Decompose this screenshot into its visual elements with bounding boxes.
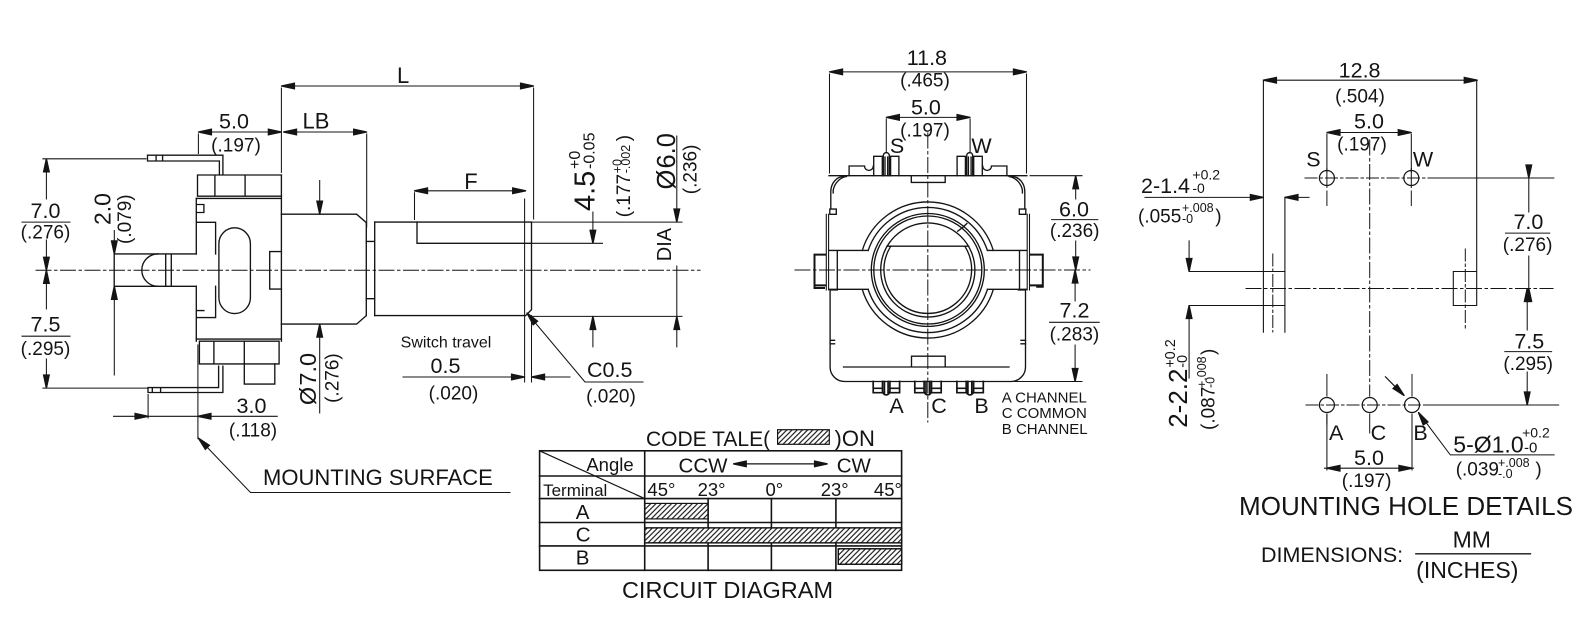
- svg-text:5.0: 5.0: [1354, 110, 1384, 134]
- svg-text:7.2: 7.2: [1060, 298, 1090, 322]
- svg-text:C: C: [1371, 421, 1387, 445]
- A-C-B holes axis line: [1306, 404, 1425, 406]
- svg-text:5-Ø1.0: 5-Ø1.0: [1453, 431, 1523, 457]
- svg-text:(.020): (.020): [586, 387, 636, 408]
- svg-text:MM: MM: [1453, 527, 1491, 553]
- switch travel pre-position line: [524, 199, 526, 382]
- svg-text:W: W: [971, 134, 992, 158]
- code table frame: [540, 451, 902, 571]
- center tab notch below top edge: [911, 176, 945, 183]
- svg-text:6.0: 6.0: [1059, 197, 1089, 221]
- CCW-CW double arrow: [746, 463, 814, 465]
- dimension 12.8: [1263, 79, 1477, 81]
- svg-text:(.087: (.087: [1198, 387, 1219, 430]
- centerline horizontal (side view axis): [36, 269, 700, 271]
- leader arrow into hole B: [1385, 377, 1399, 391]
- svg-text:(.197): (.197): [1342, 471, 1392, 492]
- lower cover side notches: [830, 340, 1025, 344]
- svg-text:B: B: [974, 394, 988, 418]
- svg-text:C: C: [931, 394, 947, 418]
- shaft neck step: [366, 222, 374, 316]
- top-right corner curl: [1009, 177, 1026, 215]
- bezel circle inner: [874, 216, 982, 324]
- svg-text:(.039: (.039: [1456, 459, 1499, 480]
- mounting surface leader and label: [198, 438, 510, 493]
- svg-text:C0.5: C0.5: [587, 358, 632, 382]
- centerline vertical (front view): [927, 133, 929, 422]
- dimension dia 7.0 bushing: [319, 181, 321, 414]
- dimension 7.2: [1010, 270, 1082, 382]
- svg-text:11.8: 11.8: [907, 46, 947, 70]
- hole W: [1404, 171, 1419, 186]
- dimension 6.0: [1030, 176, 1082, 270]
- W terminal tab: [957, 153, 982, 176]
- dimension 0.5 travel: [403, 376, 570, 378]
- svg-text:Ø: Ø: [295, 387, 321, 405]
- body right edge: [280, 175, 282, 341]
- body left edge and notches: [196, 198, 215, 341]
- shaft D-flat line: [417, 222, 532, 243]
- dimension 5.0 S-W: [1327, 133, 1411, 173]
- svg-text:(.197): (.197): [211, 135, 261, 156]
- dimension 5.0 body width: [198, 132, 281, 154]
- svg-text:-0: -0: [1203, 377, 1217, 388]
- hatch bar terminal C: [645, 528, 902, 543]
- svg-text:0.5: 0.5: [431, 354, 461, 378]
- body top edge: [829, 175, 1027, 177]
- svg-text:S: S: [1306, 148, 1320, 172]
- left shoulder and notch: [849, 166, 873, 176]
- svg-text:-.0: -.0: [1498, 467, 1513, 481]
- stub clip lines left: [830, 250, 869, 289]
- leader from hole B to note: [1419, 413, 1555, 455]
- second ring arcs: [868, 207, 987, 332]
- stub clip lines right: [987, 250, 1026, 289]
- svg-text:-0.05: -0.05: [581, 132, 598, 169]
- centerline horizontal (front view): [795, 269, 1090, 271]
- dimension 2-1.4 slots: [1145, 196, 1309, 198]
- svg-text:(.465): (.465): [900, 71, 950, 92]
- svg-text:-0: -0: [1182, 212, 1193, 226]
- left slot centerline: [1272, 254, 1274, 332]
- dimension dia 6.0 shaft: [532, 136, 683, 347]
- bottom bent mounting leg: [148, 366, 223, 392]
- svg-text:B: B: [1413, 421, 1427, 445]
- svg-text:MOUNTING HOLE DETAILS: MOUNTING HOLE DETAILS: [1239, 491, 1573, 521]
- shaft outline: [375, 222, 532, 316]
- svg-text:4.5: 4.5: [569, 171, 601, 211]
- terminal pin A: [873, 382, 899, 395]
- svg-text:(.295): (.295): [21, 339, 71, 360]
- svg-text:A: A: [576, 501, 590, 524]
- shaft D-hole circle: [884, 246, 972, 313]
- mounting hole details view: [1189, 80, 1559, 433]
- svg-text:A CHANNEL: A CHANNEL: [1002, 389, 1087, 406]
- svg-text:(.177: (.177: [614, 174, 635, 217]
- svg-text:7.5: 7.5: [1514, 330, 1544, 354]
- top bent mounting leg: [148, 155, 223, 174]
- dimension F: [415, 191, 526, 220]
- front view of rotary encoder: [795, 133, 1090, 422]
- upper body side edges: [826, 214, 1029, 290]
- svg-text:C COMMON: C COMMON: [1002, 405, 1087, 422]
- lower cover inner bottom line: [844, 356, 1010, 367]
- svg-text:Switch travel: Switch travel: [401, 335, 492, 352]
- dimension LB: [284, 132, 367, 227]
- dimension 7.5 left: [43, 270, 147, 388]
- dimension 3.0 leg offset: [114, 395, 278, 419]
- svg-text:-.002: -.002: [619, 145, 633, 174]
- terminal pin B: [957, 382, 983, 395]
- svg-text:+0.2: +0.2: [1522, 424, 1550, 440]
- hole S: [1319, 171, 1334, 186]
- svg-text:(.236): (.236): [1050, 221, 1100, 242]
- dimension 4.5 flat: [532, 212, 603, 347]
- threaded bushing with chamfers: [281, 214, 366, 324]
- hatch bar terminal B: [838, 549, 901, 565]
- svg-text:CCW: CCW: [679, 454, 729, 477]
- svg-text:(.276): (.276): [1503, 235, 1553, 256]
- svg-text:23°: 23°: [821, 479, 849, 500]
- hole C: [1362, 398, 1377, 413]
- dimension 2.0 plunger: [113, 231, 115, 376]
- svg-text:7.0: 7.0: [295, 353, 321, 386]
- hatch legend sample: [778, 430, 830, 445]
- hole B: [1405, 398, 1420, 413]
- dimension 11.8: [830, 72, 1027, 173]
- svg-text:Angle: Angle: [586, 454, 633, 475]
- hole A: [1319, 398, 1334, 413]
- svg-text:Terminal: Terminal: [543, 481, 607, 500]
- svg-text:2.0: 2.0: [89, 193, 115, 225]
- mounting surface extension line: [197, 345, 199, 439]
- shaft D-hole flat chord: [887, 245, 969, 247]
- S-W holes axis line: [1305, 177, 1437, 179]
- table header diagonal: [540, 451, 645, 499]
- svg-text:): ): [614, 135, 635, 141]
- svg-text:-0: -0: [1175, 355, 1191, 368]
- svg-text:7.0: 7.0: [1513, 210, 1543, 234]
- outer ring arcs: [862, 202, 993, 338]
- svg-text:(.197): (.197): [1337, 135, 1387, 156]
- svg-text:(.295): (.295): [1503, 354, 1553, 375]
- svg-text:A: A: [1329, 421, 1344, 445]
- right slot: [1453, 80, 1476, 305]
- bottom box: [196, 339, 281, 364]
- svg-text:7.5: 7.5: [31, 313, 61, 337]
- svg-text:LB: LB: [303, 109, 330, 134]
- svg-text:6.0: 6.0: [653, 133, 681, 168]
- svg-text:45°: 45°: [647, 479, 675, 500]
- svg-text:45°: 45°: [874, 479, 902, 500]
- switch plunger: [114, 254, 196, 286]
- svg-text:-0: -0: [1524, 439, 1537, 456]
- svg-text:B: B: [576, 546, 590, 569]
- svg-text:2-2.2: 2-2.2: [1163, 369, 1193, 428]
- svg-text:W: W: [1413, 148, 1434, 172]
- svg-text:C: C: [576, 524, 591, 547]
- svg-text:(.197): (.197): [900, 121, 950, 142]
- dimension 7.0 left: [43, 159, 146, 270]
- bezel circle outer: [871, 214, 984, 327]
- svg-text:3.0: 3.0: [237, 394, 267, 418]
- svg-text:L: L: [397, 63, 409, 88]
- S terminal tab: [874, 153, 899, 176]
- svg-text:5.0: 5.0: [1354, 446, 1384, 470]
- svg-text:(.079): (.079): [115, 194, 136, 244]
- svg-text:(.276): (.276): [21, 223, 71, 244]
- svg-text:-0: -0: [1192, 180, 1205, 196]
- svg-text:DIMENSIONS:: DIMENSIONS:: [1261, 543, 1403, 567]
- svg-text:(.276): (.276): [323, 353, 344, 403]
- svg-text:(.236): (.236): [681, 145, 702, 195]
- svg-text:(.020): (.020): [429, 384, 479, 405]
- right side stub: [1030, 255, 1043, 287]
- svg-text:A: A: [889, 394, 904, 418]
- svg-text:23°: 23°: [698, 479, 726, 500]
- dimension L: [281, 86, 533, 219]
- svg-text:DIA: DIA: [654, 227, 676, 261]
- dimension 2-2.2: [1188, 241, 1190, 378]
- svg-text:(.283): (.283): [1050, 324, 1100, 345]
- svg-text:CW: CW: [837, 454, 872, 477]
- top cover box: [196, 175, 281, 198]
- svg-text:Ø: Ø: [653, 170, 681, 190]
- left slot verticals: [1263, 80, 1285, 332]
- svg-text:5.0: 5.0: [911, 95, 941, 119]
- terminal pin C: [915, 382, 941, 395]
- svg-text:0°: 0°: [765, 479, 783, 500]
- svg-text:CIRCUIT DIAGRAM: CIRCUIT DIAGRAM: [622, 577, 833, 603]
- detent plate rect at body right: [270, 252, 282, 290]
- right shoulder and notch: [983, 166, 1007, 176]
- svg-text:): ): [1215, 207, 1221, 228]
- hatch bar terminal A: [645, 503, 708, 519]
- left side view of rotary encoder: [36, 155, 700, 392]
- left slot horizontals (2-2.2 extensions): [1189, 272, 1285, 306]
- view horizontal centerline: [1246, 288, 1553, 290]
- right slot centerline: [1464, 249, 1466, 328]
- svg-text:MOUNTING SURFACE: MOUNTING SURFACE: [263, 465, 493, 490]
- svg-text:12.8: 12.8: [1339, 59, 1381, 83]
- internal oval slot: [219, 228, 251, 314]
- dimension 5.0 tabs: [886, 117, 970, 153]
- svg-text:(INCHES): (INCHES): [1416, 557, 1518, 583]
- svg-text:(.118): (.118): [229, 421, 277, 442]
- dimension 7.0 right: [1528, 178, 1530, 289]
- small mold mark arc: [958, 224, 967, 232]
- plunger dome arc: [142, 254, 158, 286]
- svg-text:F: F: [464, 169, 477, 194]
- svg-text:CODE TALE(: CODE TALE(: [646, 428, 770, 451]
- svg-text:): ): [1198, 349, 1219, 355]
- lower cover body: [830, 290, 1025, 382]
- dimension 7.5 right: [1526, 289, 1528, 406]
- svg-text:)ON: )ON: [835, 426, 875, 451]
- rotor circle: [881, 223, 975, 317]
- svg-text:B CHANNEL: B CHANNEL: [1002, 421, 1088, 438]
- svg-text:5.0: 5.0: [219, 110, 249, 134]
- svg-text:): ): [1535, 459, 1541, 480]
- top-left corner curl: [830, 177, 847, 215]
- chamfer C0.5 leader and label: [527, 313, 643, 382]
- view vertical centerline: [1369, 140, 1371, 396]
- svg-text:(.055: (.055: [1138, 207, 1181, 228]
- dimension 5.0 A-B: [1325, 414, 1414, 470]
- svg-text:2-1.4: 2-1.4: [1141, 174, 1190, 198]
- svg-text:(.504): (.504): [1335, 87, 1385, 108]
- bottom switch block: [244, 364, 274, 384]
- svg-text:7.0: 7.0: [31, 199, 61, 223]
- left side stub: [815, 255, 826, 288]
